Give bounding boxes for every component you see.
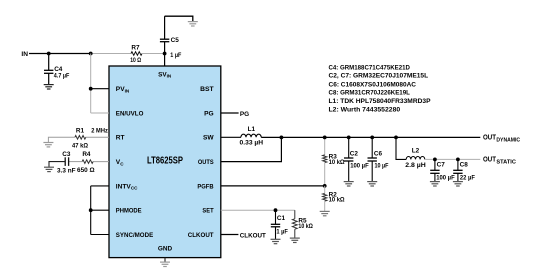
node R3 rail junction (323, 136, 327, 140)
wire CLKOUT stub (221, 234, 239, 236)
wire SET (221, 209, 295, 211)
svg-text:STATIC: STATIC (496, 159, 516, 165)
node C1 junction (274, 208, 278, 212)
svg-text:OUT: OUT (483, 157, 497, 164)
node SVIN junction (163, 52, 167, 56)
node L1 output junction (280, 136, 284, 140)
svg-text:4.7 µF: 4.7 µF (54, 73, 70, 80)
svg-text:CLKOUT: CLKOUT (188, 232, 214, 239)
node C4 junction (47, 52, 51, 56)
svg-text:L2: L2 (412, 148, 420, 155)
wire VC to R4 (93, 161, 109, 163)
ground under R2 (320, 211, 330, 215)
wire PGFB (221, 185, 325, 187)
svg-text:SET: SET (202, 208, 213, 215)
wire PVIN stub (91, 88, 109, 90)
svg-text:650 Ω: 650 Ω (77, 167, 95, 174)
node C6 rail junction (370, 136, 374, 140)
wire INTVCC-PHMODE-SYNC tie (91, 186, 109, 235)
svg-text:10 kΩ: 10 kΩ (329, 159, 345, 166)
svg-text:22 µF: 22 µF (460, 174, 475, 181)
svg-text:0.33 µH: 0.33 µH (240, 140, 264, 147)
svg-text:1 µF: 1 µF (276, 228, 288, 235)
svg-text:C8: C8 (460, 162, 469, 169)
svg-text:R1: R1 (76, 127, 85, 134)
node PHMODE junction (89, 208, 93, 212)
resistor R5 (292, 210, 313, 238)
svg-text:C8: GRM31CR70J226KE19L: C8: GRM31CR70J226KE19L (329, 89, 410, 96)
svg-text:L1: L1 (248, 126, 256, 133)
resistor R3 (323, 137, 345, 186)
svg-text:100 µF: 100 µF (350, 163, 369, 170)
svg-text:C6: C1608X7S0J106M080AC: C6: C1608X7S0J106M080AC (329, 81, 417, 88)
wire EN/UVLO stub (91, 112, 109, 114)
svg-text:C4: GRM188C71C475KE21D: C4: GRM188C71C475KE21D (329, 64, 411, 71)
svg-text:IN: IN (21, 51, 28, 58)
wire C5 top to ground (165, 16, 193, 21)
ground at C5 top (188, 22, 198, 26)
svg-text:PG: PG (240, 111, 249, 118)
resistor R4 (77, 151, 95, 174)
wire OUTS feedback (221, 137, 282, 161)
ground under C6 (367, 182, 377, 186)
wire PG stub (221, 112, 239, 114)
svg-text:PG: PG (204, 110, 214, 117)
wire C3 to ground (49, 162, 65, 167)
svg-text:47 kΩ: 47 kΩ (72, 142, 88, 149)
svg-text:BST: BST (200, 86, 214, 93)
capacitor C2 (344, 137, 369, 181)
node PVIN branch junction (89, 52, 93, 56)
capacitor C8 (453, 159, 475, 181)
svg-text:RT: RT (116, 135, 125, 142)
ground under C1 (271, 239, 281, 243)
svg-text:1 µF: 1 µF (170, 52, 181, 59)
resistor R1 (72, 127, 88, 149)
svg-text:OUTS: OUTS (198, 159, 214, 166)
ground under R5 (290, 238, 300, 242)
wire GND stub (164, 258, 166, 262)
svg-text:3.3 nF: 3.3 nF (57, 167, 76, 174)
svg-text:L1: TDK HPL758040FR33MRD3P: L1: TDK HPL758040FR33MRD3P (329, 98, 432, 105)
ground under C4 (44, 85, 54, 89)
svg-text:10 Ω: 10 Ω (130, 57, 141, 64)
inductor L1 (240, 126, 264, 147)
op-amp U1 LT8625SP regulator block (109, 66, 221, 258)
svg-text:PGFB: PGFB (197, 183, 213, 190)
svg-text:SYNC/MODE: SYNC/MODE (116, 232, 154, 239)
ground at VC (44, 167, 54, 171)
node L2 branch junction (394, 136, 398, 140)
resistor R2 (323, 186, 345, 211)
svg-text:SW: SW (203, 135, 214, 142)
capacitor C7 (430, 159, 455, 181)
svg-text:C1: C1 (277, 215, 286, 222)
node C8 junction (456, 158, 460, 162)
capacitor C3 (57, 151, 76, 175)
node C2 rail junction (347, 136, 351, 140)
wire vertical to PVIN/EN (90, 54, 92, 114)
svg-text:C2, C7: GRM32EC70J107ME15L: C2, C7: GRM32EC70J107ME15L (329, 72, 429, 79)
svg-text:L2: Wurth 7443552280: L2: Wurth 7443552280 (329, 106, 401, 113)
wire R1 to ground (48, 137, 75, 142)
component list note (329, 64, 432, 113)
svg-text:C6: C6 (374, 151, 383, 158)
svg-text:C2: C2 (350, 151, 359, 158)
capacitor C1 (271, 210, 288, 239)
inductor L2 (405, 148, 426, 169)
wire L2 branch down (396, 137, 406, 159)
capacitor C6 (368, 137, 389, 181)
svg-text:2 MHz: 2 MHz (91, 127, 108, 134)
svg-text:LT8625SP: LT8625SP (147, 155, 183, 166)
svg-text:R4: R4 (82, 151, 91, 158)
wire R4 to C3 (69, 161, 83, 163)
wire R7 to SVIN node (142, 53, 165, 55)
svg-text:OUT: OUT (483, 135, 497, 142)
resistor R7 (130, 45, 142, 65)
ground under C8 (453, 182, 463, 186)
wire static rail (425, 158, 481, 160)
svg-text:C3: C3 (62, 151, 71, 158)
ground at RT (43, 143, 53, 147)
svg-text:DYNAMIC: DYNAMIC (496, 137, 520, 143)
capacitor C5 (160, 16, 181, 59)
wire SVIN stub (164, 54, 166, 67)
svg-text:10 kΩ: 10 kΩ (298, 223, 313, 230)
wire dynamic rail (261, 136, 480, 138)
capacitor C4 (44, 54, 69, 85)
ground under C7 (430, 182, 440, 186)
wire RT to R1 (86, 136, 110, 138)
svg-text:10 µF: 10 µF (375, 163, 389, 170)
svg-text:2.8 µH: 2.8 µH (405, 162, 426, 169)
node PVIN stub junction (89, 87, 93, 91)
svg-text:10 kΩ: 10 kΩ (329, 197, 345, 204)
svg-text:GND: GND (158, 246, 173, 253)
svg-text:C5: C5 (171, 37, 180, 44)
svg-text:100 µF: 100 µF (436, 174, 455, 181)
svg-text:EN/UVLO: EN/UVLO (116, 110, 144, 117)
wire SW to L1 (221, 136, 241, 138)
svg-text:R7: R7 (131, 45, 140, 52)
svg-text:PHMODE: PHMODE (116, 208, 142, 215)
ground at GND pin (160, 262, 170, 266)
node C7 junction (433, 158, 437, 162)
wire IN rail (29, 53, 91, 55)
svg-text:CLKOUT: CLKOUT (240, 232, 266, 239)
svg-text:C7: C7 (437, 162, 446, 169)
node PGFB junction (323, 184, 327, 188)
ground under C2 (344, 182, 354, 186)
wire IN rail to R7 (91, 53, 132, 55)
